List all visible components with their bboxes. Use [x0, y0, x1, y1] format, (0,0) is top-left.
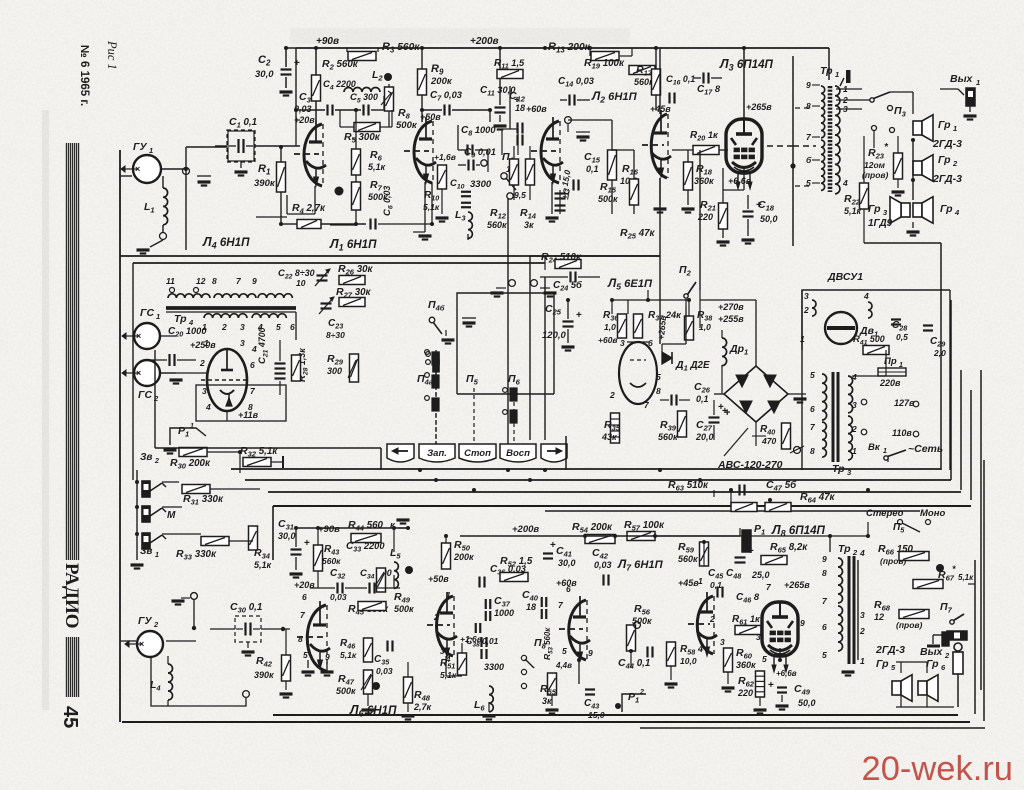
svg-text:3300: 3300: [470, 179, 492, 190]
svg-text:1,0: 1,0: [699, 322, 711, 332]
svg-text:2: 2: [709, 614, 715, 624]
svg-text:Стерео: Стерео: [866, 508, 904, 519]
svg-text:3к: 3к: [524, 220, 534, 230]
svg-text:390к: 390к: [254, 670, 274, 680]
svg-text:200к: 200к: [430, 76, 453, 87]
svg-text:2: 2: [952, 159, 958, 168]
svg-text:2: 2: [153, 394, 159, 403]
svg-text:1: 1: [883, 448, 887, 455]
svg-text:+: +: [294, 58, 300, 69]
svg-text:3: 3: [860, 610, 865, 620]
svg-text:+1,6в: +1,6в: [434, 152, 456, 162]
svg-text:127в: 127в: [894, 398, 915, 408]
svg-text:+200в: +200в: [512, 524, 539, 535]
svg-text:15,0: 15,0: [588, 710, 605, 720]
svg-text:5,1к: 5,1к: [340, 650, 357, 660]
svg-text:2: 2: [803, 305, 809, 315]
svg-text:8: 8: [298, 634, 303, 644]
svg-text:8: 8: [822, 568, 827, 578]
svg-text:6: 6: [810, 404, 815, 414]
svg-text:5: 5: [810, 370, 815, 380]
svg-text:R3 560к: R3 560к: [382, 41, 420, 55]
svg-text:(пров): (пров): [862, 170, 889, 180]
svg-text:ГУ: ГУ: [138, 615, 152, 627]
svg-text:500к: 500к: [396, 120, 418, 131]
svg-text:9: 9: [806, 80, 811, 90]
svg-text:4: 4: [954, 208, 960, 217]
svg-text:11: 11: [166, 276, 175, 286]
svg-text:0,1: 0,1: [710, 580, 722, 590]
svg-text:10: 10: [296, 278, 306, 288]
svg-text:Тр: Тр: [174, 313, 187, 325]
svg-text:+11в: +11в: [238, 410, 259, 420]
svg-text:3: 3: [240, 322, 245, 332]
svg-text:3: 3: [202, 386, 207, 396]
svg-text:360к: 360к: [694, 176, 714, 186]
svg-text:1: 1: [446, 590, 451, 600]
svg-text:9: 9: [800, 618, 805, 628]
svg-text:5: 5: [303, 650, 308, 660]
svg-text:1000: 1000: [494, 608, 514, 618]
svg-text:30,0: 30,0: [558, 558, 576, 568]
svg-text:ГС: ГС: [140, 307, 154, 319]
svg-text:Л7 6Н1П: Л7 6Н1П: [617, 557, 664, 573]
svg-text:+: +: [304, 538, 310, 549]
svg-text:Гр: Гр: [868, 203, 881, 215]
svg-text:12ом: 12ом: [864, 160, 886, 170]
svg-text:+90в: +90в: [318, 524, 340, 535]
svg-text:4: 4: [205, 402, 211, 412]
svg-text:3: 3: [620, 338, 625, 348]
svg-text:Гр: Гр: [926, 658, 939, 670]
svg-text:1: 1: [976, 78, 980, 87]
svg-text:200к: 200к: [453, 552, 474, 562]
svg-text:8÷30: 8÷30: [326, 330, 345, 340]
svg-text:+6,6в: +6,6в: [776, 669, 797, 678]
svg-text:Рис 1: Рис 1: [105, 40, 119, 70]
svg-text:Восп: Восп: [506, 448, 530, 459]
svg-text:43к: 43к: [601, 432, 617, 442]
svg-text:4: 4: [851, 372, 857, 382]
svg-text:Тр: Тр: [832, 463, 845, 475]
svg-text:8: 8: [656, 386, 661, 396]
svg-text:5: 5: [762, 654, 767, 664]
svg-text:R26 30к: R26 30к: [338, 263, 374, 277]
svg-text:5: 5: [822, 650, 827, 660]
svg-text:R30 200к: R30 200к: [170, 457, 211, 471]
svg-text:+60в: +60в: [526, 104, 547, 114]
svg-text:1: 1: [149, 146, 153, 155]
svg-text:Зап.: Зап.: [427, 448, 447, 459]
svg-text:560к: 560к: [487, 220, 507, 230]
svg-text:6: 6: [250, 360, 255, 370]
svg-text:R32 5,1к: R32 5,1к: [240, 445, 278, 459]
svg-text:5: 5: [562, 646, 567, 656]
svg-text:2ГД-3: 2ГД-3: [875, 644, 905, 656]
svg-text:+265в: +265в: [784, 580, 810, 590]
svg-text:2: 2: [433, 612, 439, 622]
svg-text:+45в: +45в: [678, 578, 699, 588]
svg-text:R33 330к: R33 330к: [176, 548, 217, 562]
svg-text:+: +: [550, 540, 556, 551]
svg-text:Гр: Гр: [938, 154, 951, 166]
svg-text:2: 2: [944, 651, 950, 660]
svg-text:R13 200к: R13 200к: [548, 41, 591, 55]
svg-text:18: 18: [526, 602, 536, 612]
svg-text:Л4 6Н1П: Л4 6Н1П: [202, 235, 250, 251]
svg-text:220: 220: [737, 688, 753, 698]
svg-text:+: +: [756, 200, 762, 211]
svg-text:20,0: 20,0: [695, 432, 714, 442]
svg-text:9: 9: [252, 276, 257, 286]
svg-text:4: 4: [863, 291, 869, 301]
svg-text:Гр: Гр: [940, 203, 953, 215]
svg-text:C44 0,1: C44 0,1: [618, 657, 650, 671]
svg-text:560к: 560к: [678, 554, 698, 564]
svg-text:2: 2: [852, 548, 858, 557]
svg-text:C1 0,1: C1 0,1: [229, 116, 257, 130]
svg-text:12: 12: [196, 276, 206, 286]
svg-text:0,1: 0,1: [696, 394, 709, 404]
svg-text:10,0: 10,0: [680, 656, 697, 666]
svg-text:+265в: +265в: [746, 102, 772, 112]
svg-text:2: 2: [199, 358, 205, 368]
svg-text:9: 9: [822, 554, 827, 564]
svg-text:2: 2: [154, 458, 159, 465]
svg-text:0,5: 0,5: [896, 332, 908, 342]
svg-text:2,0: 2,0: [933, 348, 946, 358]
svg-text:М: М: [167, 510, 176, 521]
svg-text:6: 6: [822, 622, 827, 632]
svg-text:0,1: 0,1: [586, 164, 599, 174]
svg-text:ДВСУ1: ДВСУ1: [827, 271, 863, 283]
svg-text:R44 560: R44 560: [348, 519, 384, 533]
svg-text:+: +: [576, 310, 582, 321]
svg-text:Д1 Д2Е: Д1 Д2Е: [675, 359, 710, 373]
svg-text:3: 3: [804, 291, 809, 301]
svg-text:Гр: Гр: [938, 119, 951, 131]
svg-text:8: 8: [212, 276, 217, 286]
svg-text:Стоп: Стоп: [464, 448, 491, 459]
svg-text:+60в: +60в: [598, 335, 618, 345]
svg-text:R57 100к: R57 100к: [624, 519, 665, 533]
svg-text:Моно: Моно: [920, 508, 945, 519]
svg-text:5,1к: 5,1к: [368, 162, 386, 172]
svg-text:3к: 3к: [542, 696, 552, 706]
svg-text:110в: 110в: [892, 428, 912, 438]
svg-text:2: 2: [859, 626, 865, 636]
svg-text:6: 6: [566, 584, 571, 594]
svg-text:Л3 6П14П: Л3 6П14П: [719, 57, 774, 73]
svg-text:~Сеть: ~Сеть: [908, 443, 943, 455]
svg-text:+255в: +255в: [718, 314, 744, 324]
svg-text:1: 1: [852, 446, 857, 456]
svg-text:5,1к: 5,1к: [958, 573, 974, 582]
svg-text:+: +: [724, 407, 730, 419]
svg-text:4: 4: [842, 178, 848, 188]
svg-text:18: 18: [515, 103, 525, 113]
svg-text:3: 3: [240, 338, 245, 348]
svg-text:4: 4: [859, 548, 865, 558]
svg-text:R63 510к: R63 510к: [668, 479, 709, 493]
svg-text:30,0: 30,0: [255, 69, 274, 80]
svg-text:9,5: 9,5: [514, 190, 526, 200]
svg-text:6: 6: [302, 592, 307, 602]
svg-text:300: 300: [327, 366, 342, 376]
svg-text:12: 12: [874, 612, 884, 622]
svg-text:+90в: +90в: [316, 36, 339, 47]
svg-text:+270в: +270в: [718, 302, 744, 312]
svg-text:ГУ: ГУ: [133, 141, 147, 153]
svg-text:1: 1: [155, 552, 159, 559]
svg-text:*: *: [952, 564, 956, 574]
svg-text:45: 45: [59, 706, 81, 728]
svg-text:Тр: Тр: [838, 543, 851, 555]
svg-text:3: 3: [720, 637, 725, 647]
svg-text:РАДИО: РАДИО: [61, 563, 82, 629]
svg-text:5,1к: 5,1к: [844, 206, 862, 216]
svg-text:50,0: 50,0: [798, 698, 816, 708]
svg-text:1ГД9: 1ГД9: [868, 218, 893, 229]
svg-text:+: +: [768, 680, 774, 691]
svg-text:3300: 3300: [484, 662, 504, 672]
svg-text:1,0: 1,0: [604, 322, 616, 332]
svg-text:6: 6: [290, 322, 295, 332]
svg-text:9: 9: [588, 648, 593, 658]
svg-text:Вк: Вк: [868, 442, 881, 453]
svg-text:3: 3: [756, 632, 761, 642]
svg-text:220в: 220в: [879, 378, 901, 388]
svg-text:Зв: Зв: [140, 452, 152, 463]
svg-text:5: 5: [656, 372, 661, 382]
svg-text:8: 8: [810, 446, 815, 456]
svg-text:R65 8,2к: R65 8,2к: [770, 541, 808, 555]
svg-text:2: 2: [609, 390, 615, 400]
svg-text:560к: 560к: [658, 432, 678, 442]
svg-text:5,1к: 5,1к: [254, 560, 272, 570]
svg-text:1: 1: [204, 338, 209, 348]
svg-text:Тр: Тр: [820, 65, 833, 77]
svg-text:C47 5б: C47 5б: [766, 479, 797, 493]
svg-text:R54 200к: R54 200к: [572, 521, 613, 535]
svg-text:АВС-120-270: АВС-120-270: [717, 459, 783, 471]
svg-text:+265в: +265в: [656, 315, 668, 340]
svg-text:+6,6в: +6,6в: [728, 176, 752, 186]
svg-text:R64 47к: R64 47к: [800, 491, 836, 505]
svg-text:1: 1: [156, 312, 160, 321]
svg-text:2: 2: [221, 322, 227, 332]
svg-text:(пров): (пров): [896, 620, 923, 630]
svg-text:470: 470: [761, 436, 776, 446]
svg-text:3: 3: [852, 400, 857, 410]
svg-text:R31 330к: R31 330к: [183, 493, 224, 507]
svg-text:390к: 390к: [254, 178, 276, 189]
svg-text:R52 1,5: R52 1,5: [500, 555, 533, 569]
svg-text:50,0: 50,0: [760, 214, 778, 224]
svg-text:+200в: +200в: [470, 36, 499, 47]
svg-text:1: 1: [190, 423, 194, 430]
svg-text:Вых: Вых: [920, 646, 944, 658]
svg-text:2: 2: [639, 689, 644, 696]
svg-text:0,03: 0,03: [594, 560, 612, 570]
svg-text:2,7к: 2,7к: [413, 702, 432, 712]
svg-text:R19 100к: R19 100к: [584, 57, 625, 71]
svg-text:20-wek.ru: 20-wek.ru: [862, 750, 1013, 788]
svg-text:360к: 360к: [736, 660, 756, 670]
svg-text:+50в: +50в: [428, 574, 449, 584]
svg-text:2: 2: [851, 424, 857, 434]
svg-text:C30 0,1: C30 0,1: [230, 601, 262, 615]
svg-text:ГС: ГС: [138, 389, 152, 401]
svg-text:Гр: Гр: [876, 658, 889, 670]
svg-text:500к: 500к: [394, 604, 414, 614]
svg-text:560к: 560к: [322, 556, 341, 566]
svg-text:0,03: 0,03: [376, 666, 393, 676]
svg-text:Л5 6Е1П: Л5 6Е1П: [607, 276, 653, 292]
svg-text:1: 1: [835, 70, 839, 79]
svg-text:б: б: [806, 155, 812, 165]
svg-text:30,0: 30,0: [278, 531, 296, 541]
svg-text:R25 47к: R25 47к: [620, 227, 656, 241]
svg-text:5: 5: [276, 322, 281, 332]
svg-text:Л1 6Н1П: Л1 6Н1П: [329, 237, 377, 253]
svg-text:2ГД-3: 2ГД-3: [932, 138, 962, 150]
svg-text:4,4в: 4,4в: [555, 661, 572, 670]
svg-text:1: 1: [698, 576, 703, 586]
svg-text:25,0: 25,0: [751, 570, 770, 580]
svg-text:1: 1: [860, 656, 865, 666]
svg-text:5,1к: 5,1к: [440, 670, 457, 680]
svg-text:9: 9: [325, 652, 330, 662]
svg-text:500к: 500к: [336, 686, 356, 696]
svg-text:№ 6 1965 г.: № 6 1965 г.: [78, 45, 90, 106]
svg-text:R5 300к: R5 300к: [344, 131, 381, 145]
svg-text:Л2 6Н1П: Л2 6Н1П: [591, 89, 638, 105]
svg-text:500к: 500к: [598, 194, 618, 204]
svg-text:1: 1: [953, 124, 957, 133]
svg-text:2: 2: [153, 620, 159, 629]
svg-text:8: 8: [806, 101, 811, 111]
svg-text:2ГД-3: 2ГД-3: [932, 173, 962, 185]
svg-text:6: 6: [648, 338, 653, 348]
svg-text:Вых: Вых: [950, 73, 974, 85]
